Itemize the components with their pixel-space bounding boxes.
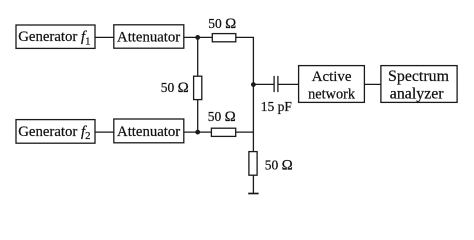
svg-text:Active: Active: [312, 69, 352, 85]
block Active network: [299, 66, 365, 103]
svg-text:Generator f2: Generator f2: [18, 124, 90, 142]
svg-text:Attenuator: Attenuator: [117, 124, 180, 140]
svg-text:50 Ω: 50 Ω: [208, 109, 236, 125]
capacitor C1 left plate: [273, 76, 275, 92]
wire R4 to ground: [252, 175, 254, 193]
resistor R4 body (termination 50Ω): [249, 152, 257, 176]
resistor R2 body (vertical bridge 50Ω): [194, 76, 202, 99]
wire capacitor to Active network: [278, 83, 298, 85]
svg-text:network: network: [308, 87, 356, 103]
svg-text:Attenuator: Attenuator: [117, 29, 180, 45]
resistor R1 body (top series 50Ω): [212, 34, 236, 42]
wire R3 to vertical bus (node C): [236, 131, 254, 133]
capacitor C1 right plate: [277, 76, 279, 92]
svg-text:Spectrum: Spectrum: [388, 68, 450, 85]
node A junction dot: [195, 35, 200, 40]
wire Active network to Spectrum analyzer: [364, 83, 381, 85]
node B junction dot: [251, 82, 256, 87]
wire Attenuator1 to node A: [184, 36, 213, 38]
block Spectrum analyzer: [381, 66, 457, 103]
node D junction dot: [195, 130, 200, 135]
wire node B to capacitor: [253, 83, 273, 85]
block Generator f1: [16, 25, 95, 48]
resistor R3 body (bottom series 50Ω): [211, 128, 235, 136]
block Generator f2: [16, 120, 95, 144]
wire G1 to Attenuator1: [95, 36, 114, 38]
svg-text:50 Ω: 50 Ω: [265, 157, 293, 173]
wire node A down to R2: [197, 37, 199, 76]
block Attenuator (top): [114, 25, 184, 48]
wire Attenuator2 to R3: [184, 131, 212, 133]
svg-text:Generator f1: Generator f1: [18, 29, 90, 47]
wire R1 to vertical bus (corner): [236, 37, 254, 151]
svg-text:analyzer: analyzer: [390, 86, 445, 103]
ground bar: [248, 193, 258, 195]
wire G2 to Attenuator2: [95, 131, 114, 133]
svg-text:50 Ω: 50 Ω: [161, 80, 189, 96]
svg-text:15 pF: 15 pF: [261, 99, 293, 114]
block Attenuator (bottom): [114, 119, 184, 143]
svg-text:50 Ω: 50 Ω: [208, 16, 236, 32]
wire R2 to node D: [197, 100, 199, 133]
